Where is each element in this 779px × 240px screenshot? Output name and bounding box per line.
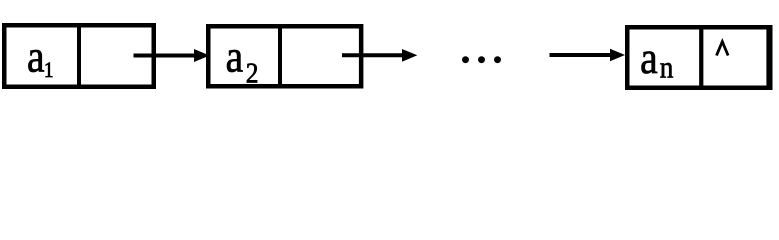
ellipsis dot 1 xyxy=(462,56,469,63)
divider box 3 xyxy=(699,27,703,88)
wire arrow 1 shaft xyxy=(134,54,197,58)
node box 2 xyxy=(208,26,361,86)
svg-text:a: a xyxy=(27,32,45,82)
divider box 1 xyxy=(77,25,81,87)
ellipsis dot 3 xyxy=(494,56,501,63)
node box 1 xyxy=(4,25,154,87)
wire arrow 2 shaft xyxy=(342,53,404,57)
wire arrow 3 head xyxy=(610,49,625,62)
wire arrow 1 head xyxy=(194,49,210,62)
wire arrow 3 shaft xyxy=(550,53,613,57)
node box 3 right edge thickening xyxy=(766,26,768,90)
null caret xyxy=(717,42,729,56)
node box 3 xyxy=(627,27,770,88)
svg-text:a: a xyxy=(226,32,244,82)
svg-text:2: 2 xyxy=(246,57,259,89)
wire arrow 2 head xyxy=(402,49,417,62)
divider box 2 xyxy=(278,26,282,86)
svg-text:1: 1 xyxy=(44,59,54,82)
svg-text:a: a xyxy=(640,34,658,84)
svg-text:n: n xyxy=(660,51,674,85)
ellipsis dot 2 xyxy=(478,56,485,63)
